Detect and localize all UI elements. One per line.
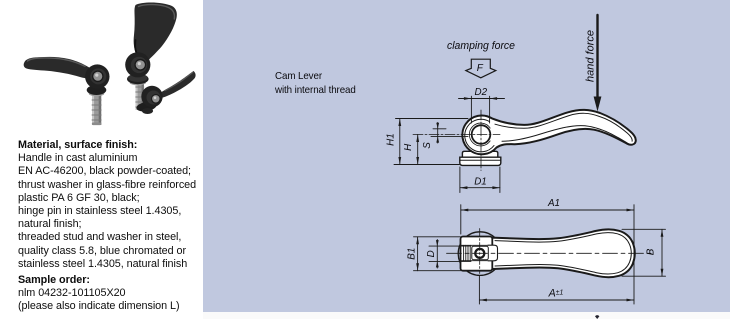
- dimension B: [622, 229, 666, 276]
- top view: thrust washer circle: [458, 232, 502, 276]
- centerline horizontal through lever: [447, 252, 652, 254]
- dimension A±1: [479, 276, 634, 305]
- svg-text:F: F: [477, 63, 484, 74]
- svg-text:D2: D2: [475, 87, 488, 98]
- cam inner mold contour: [465, 119, 494, 152]
- clamping force label: [407, 40, 555, 52]
- thrust washer lower part: [460, 157, 501, 165]
- dimension B1: [414, 237, 461, 271]
- thread arc in hole: [469, 123, 490, 146]
- top view: head block: [461, 237, 493, 271]
- clamping force hollow arrow with F: [466, 59, 496, 78]
- lever 1 threaded stud: [92, 96, 102, 126]
- dimension D1: [460, 167, 500, 193]
- handle inner contour lines: [495, 113, 632, 141]
- svg-text:A1: A1: [547, 198, 560, 209]
- svg-text:B1: B1: [406, 248, 417, 260]
- svg-text:H: H: [403, 143, 414, 151]
- svg-text:D: D: [426, 250, 437, 257]
- blue drawing panel background: [203, 0, 730, 312]
- dimension S: [431, 123, 468, 144]
- dimension D2: [459, 96, 505, 123]
- lever 2 threaded stud: [136, 82, 144, 110]
- head band lines: [461, 244, 489, 246]
- lever 2 paddle handle: [134, 2, 177, 60]
- lever 1 cam head: [85, 64, 109, 88]
- lever 3 washer: [136, 100, 158, 113]
- lever 3 handle blade: [162, 71, 196, 98]
- centerline vertical through hole: [479, 229, 481, 274]
- hand force arrow: [596, 15, 598, 99]
- center cross vertical: [480, 110, 482, 171]
- lever 2 cam head: [125, 52, 150, 77]
- dimension H1: [394, 119, 468, 165]
- dimension H: [416, 135, 419, 165]
- handle inner contour: [495, 233, 631, 274]
- svg-text:H1: H1: [385, 133, 396, 146]
- side view: cam head + lever handle combined outline: [462, 110, 635, 154]
- square around hole: [472, 246, 489, 259]
- washer inner line: [460, 159, 501, 161]
- center line horizontal (also H extension): [413, 134, 500, 136]
- knurl lines: [464, 245, 471, 260]
- page crop mark at bottom: [595, 315, 599, 319]
- svg-text:S: S: [422, 142, 433, 149]
- top view: lever handle outline (white filled): [492, 229, 635, 277]
- left column: material description text: [18, 139, 214, 313]
- head side tab: [488, 245, 498, 261]
- svg-text:B: B: [646, 248, 657, 255]
- lever 1 washer under cam: [89, 91, 105, 97]
- lever 2 washer: [130, 80, 146, 86]
- threaded hole: [475, 249, 484, 258]
- thrust washer upper part: [462, 151, 497, 157]
- svg-text:D1: D1: [474, 177, 487, 188]
- panel caption: [275, 70, 356, 97]
- hand force label (rotated): [585, 4, 597, 109]
- svg-text:A±1: A±1: [548, 287, 564, 299]
- hinge hole: [472, 125, 491, 144]
- lever 1 handle: [24, 57, 96, 78]
- dimension D: [429, 240, 471, 269]
- lever 3 cam head: [141, 86, 162, 107]
- dimension A1: [461, 205, 634, 304]
